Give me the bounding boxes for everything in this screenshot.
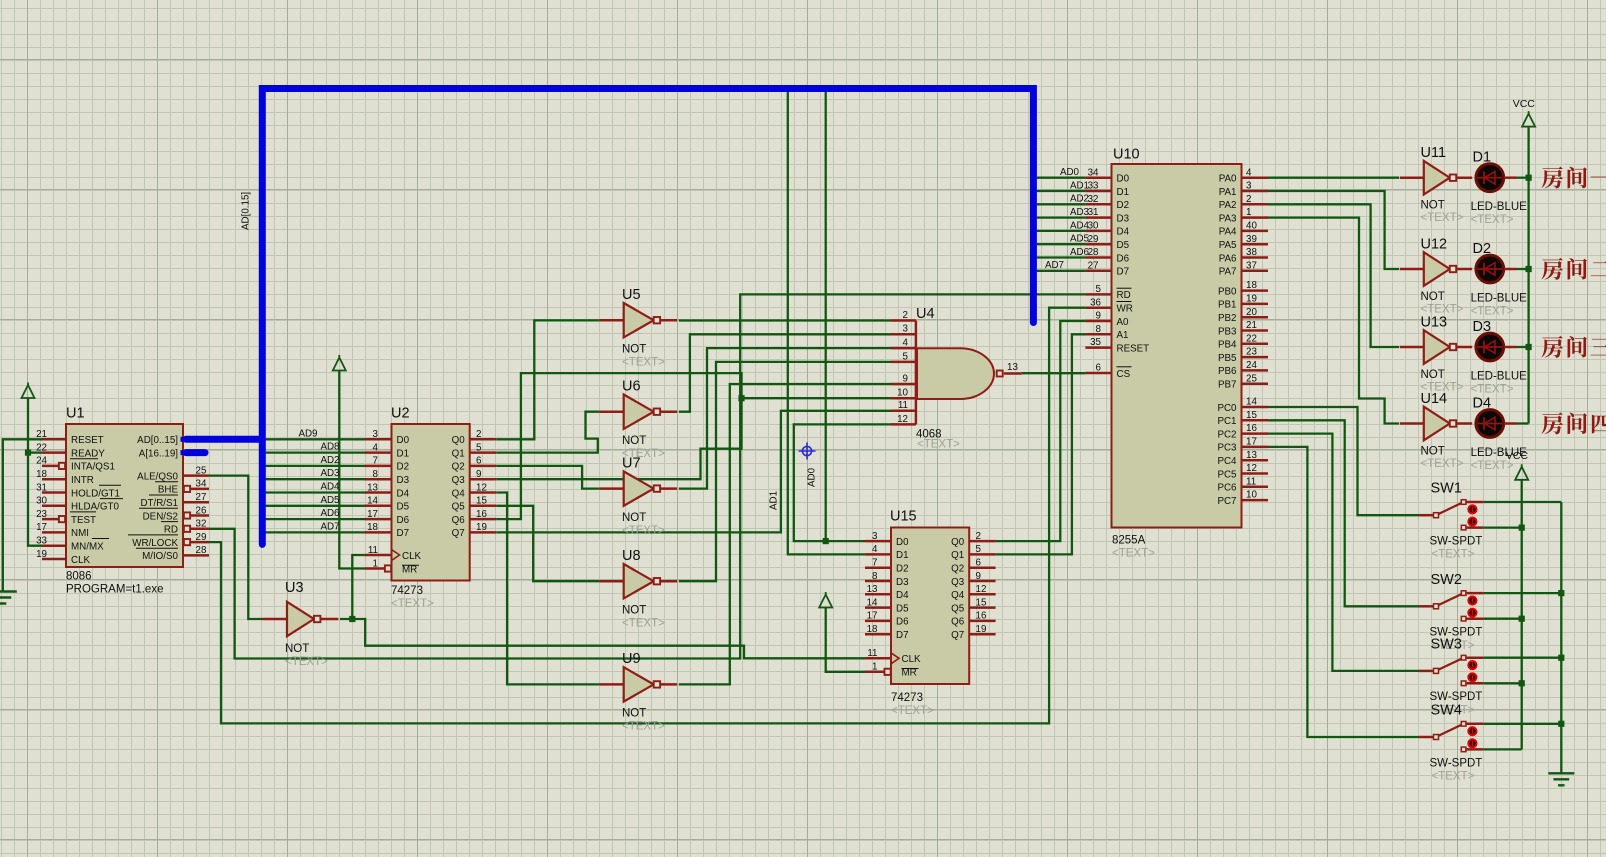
- net label AD5: [320, 495, 340, 506]
- wire ground rail for switches: [1560, 502, 1562, 773]
- svg-text:NMI: NMI: [71, 528, 89, 539]
- svg-text:Q7: Q7: [951, 630, 964, 641]
- svg-text:AD4: AD4: [320, 482, 340, 493]
- wire Q0 net U2.2 to U5 input: [496, 320, 600, 439]
- bus label AD[0.15]: [241, 192, 252, 230]
- svg-text:AD0: AD0: [1060, 167, 1080, 178]
- svg-text:U12: U12: [1421, 236, 1448, 252]
- svg-text:16: 16: [1246, 423, 1257, 434]
- wire PA3 U10.1 to U14 input: [1268, 218, 1399, 424]
- svg-text:28: 28: [196, 545, 207, 556]
- svg-text:15: 15: [1246, 410, 1257, 421]
- svg-text:6: 6: [1096, 363, 1102, 374]
- svg-text:D3: D3: [397, 475, 410, 486]
- svg-text:U10: U10: [1113, 147, 1140, 163]
- wire AD1 net bus to U15.D1: [788, 90, 865, 554]
- svg-text:PC7: PC7: [1217, 496, 1236, 507]
- svg-text:2: 2: [476, 429, 481, 440]
- svg-text:19: 19: [1246, 294, 1257, 305]
- wire LED D1 cathode to VCC rail: [1517, 177, 1529, 179]
- svg-text:30: 30: [1088, 221, 1099, 232]
- svg-text:D6: D6: [397, 515, 410, 526]
- net label AD3 at U10: [1070, 207, 1090, 218]
- svg-text:D0: D0: [397, 435, 410, 446]
- svg-text:WR: WR: [1117, 304, 1133, 315]
- svg-text:16: 16: [476, 509, 487, 520]
- wire U15.Q0 to U10.9 A0: [996, 321, 1086, 541]
- 8255A PPI U10: [1085, 147, 1268, 560]
- svg-text:U4: U4: [916, 306, 935, 322]
- wire AD8 bus tap to U2 D1: [262, 451, 364, 453]
- svg-text:<TEXT>: <TEXT>: [1432, 549, 1475, 561]
- wire AD4 bus tap to U10 D4: [1037, 230, 1086, 232]
- svg-text:3: 3: [872, 531, 878, 542]
- svg-text:34: 34: [1088, 167, 1099, 178]
- svg-text:U13: U13: [1421, 314, 1448, 330]
- wire Q2 net U2.6 to U7 input: [496, 466, 600, 489]
- svg-text:2: 2: [1246, 194, 1251, 205]
- wire U7 output to U4.4: [679, 348, 891, 489]
- svg-text:<TEXT>: <TEXT>: [1421, 212, 1464, 224]
- svg-text:D1: D1: [1117, 187, 1130, 198]
- 74273 latch U2: [365, 406, 497, 611]
- net label AD8: [320, 442, 340, 453]
- svg-text:AD9: AD9: [298, 428, 317, 439]
- wire RESET net U1.21 to ground: [3, 439, 42, 591]
- svg-text:LED-BLUE: LED-BLUE: [1471, 293, 1528, 305]
- wire Q4 net U2.12 to U9 input: [496, 493, 600, 685]
- wire U3 output to U15.11 CLK: [340, 619, 865, 658]
- svg-text:13: 13: [1007, 362, 1018, 373]
- svg-text:SW-SPDT: SW-SPDT: [1430, 691, 1483, 703]
- power flag VCC (left, feeds U1 READY / MN-MX): [22, 383, 35, 399]
- svg-text:RD: RD: [1117, 290, 1131, 301]
- svg-text:28: 28: [1088, 247, 1099, 258]
- svg-text:12: 12: [1246, 463, 1257, 474]
- svg-text:8255A: 8255A: [1112, 535, 1146, 547]
- svg-text:Q6: Q6: [452, 515, 466, 526]
- svg-text:16: 16: [976, 611, 987, 622]
- svg-text:U2: U2: [391, 406, 410, 422]
- net label AD2: [320, 455, 339, 466]
- svg-text:AD1: AD1: [1070, 180, 1089, 191]
- svg-text:PA0: PA0: [1219, 174, 1237, 185]
- svg-text:CLK: CLK: [402, 551, 422, 562]
- svg-text:DT/R/S1: DT/R/S1: [140, 498, 178, 509]
- svg-text:PB6: PB6: [1218, 366, 1237, 377]
- svg-text:RESET: RESET: [1117, 343, 1150, 354]
- svg-text:7: 7: [872, 558, 877, 569]
- net label AD6 at U10: [1070, 247, 1090, 258]
- NOT gate U12: [1400, 236, 1472, 315]
- svg-text:D6: D6: [1117, 253, 1130, 264]
- svg-text:A1: A1: [1117, 330, 1129, 341]
- svg-text:ALE/QS0: ALE/QS0: [137, 471, 178, 482]
- junction ground rail: [1558, 721, 1564, 727]
- junction on VCC rail at READY row: [25, 450, 31, 456]
- svg-text:D4: D4: [896, 590, 909, 601]
- wire SW1 upper throw to ground rail: [1483, 501, 1561, 503]
- svg-text:D3: D3: [1117, 213, 1130, 224]
- svg-text:3: 3: [903, 324, 909, 335]
- svg-text:AD7: AD7: [1045, 260, 1064, 271]
- wire U15.Q1 to U10.8 A1: [996, 334, 1086, 554]
- svg-text:AD5: AD5: [320, 495, 340, 506]
- svg-text:Q1: Q1: [452, 448, 465, 459]
- svg-text:DEN/S2: DEN/S2: [143, 511, 178, 522]
- svg-text:4: 4: [872, 544, 878, 555]
- net label 房间三: [1541, 336, 1606, 358]
- wire LED D4 cathode to VCC rail: [1517, 422, 1529, 424]
- svg-text:D4: D4: [1473, 396, 1492, 412]
- svg-text:32: 32: [1088, 194, 1099, 205]
- wire AD3 bus tap to U2 D3: [262, 478, 364, 480]
- svg-text:D2: D2: [1473, 241, 1492, 257]
- net label AD9: [298, 428, 317, 439]
- wire SW3 upper throw to ground rail: [1483, 657, 1561, 659]
- svg-text:U3: U3: [285, 580, 304, 596]
- svg-text:PB4: PB4: [1218, 340, 1237, 351]
- svg-text:SW4: SW4: [1431, 703, 1462, 719]
- wire SW3 lower throw to VCC rail: [1483, 682, 1521, 684]
- svg-text:Q2: Q2: [951, 564, 964, 575]
- svg-text:SW2: SW2: [1431, 572, 1462, 588]
- svg-text:U6: U6: [622, 379, 641, 395]
- svg-text:11: 11: [867, 648, 877, 659]
- svg-text:PB2: PB2: [1218, 313, 1237, 324]
- svg-text:<TEXT>: <TEXT>: [1471, 214, 1514, 226]
- svg-text:25: 25: [196, 465, 207, 476]
- svg-text:38: 38: [1246, 247, 1257, 258]
- svg-text:10: 10: [897, 388, 908, 399]
- svg-text:40: 40: [1246, 221, 1257, 232]
- svg-text:<TEXT>: <TEXT>: [622, 525, 665, 537]
- wire tap to U4.10: [742, 397, 892, 399]
- svg-text:PB3: PB3: [1218, 326, 1237, 337]
- svg-text:<TEXT>: <TEXT>: [622, 357, 665, 369]
- svg-text:3: 3: [373, 429, 379, 440]
- svg-text:D7: D7: [896, 630, 909, 641]
- power flag VCC (switch rail): [1506, 450, 1529, 480]
- wire U8 output to U4.5: [679, 362, 891, 581]
- svg-text:CLK: CLK: [71, 555, 91, 566]
- junction on AD0 net: [823, 538, 829, 544]
- svg-text:<TEXT>: <TEXT>: [1471, 384, 1514, 396]
- svg-text:WR/LOCK: WR/LOCK: [132, 538, 178, 549]
- wire U5 output to U4.2: [679, 319, 891, 321]
- svg-text:AD5: AD5: [1070, 234, 1090, 245]
- svg-text:Q6: Q6: [951, 617, 965, 628]
- svg-text:17: 17: [367, 509, 378, 520]
- svg-text:23: 23: [1246, 347, 1257, 358]
- wire U4 output to U10.6 CS: [1022, 372, 1086, 374]
- svg-text:D0: D0: [1117, 174, 1130, 185]
- svg-text:17: 17: [1246, 437, 1257, 448]
- svg-text:AD6: AD6: [1070, 247, 1090, 258]
- svg-text:10: 10: [1246, 490, 1257, 501]
- svg-text:AD[0.15]: AD[0.15]: [241, 192, 252, 230]
- svg-text:MN/MX: MN/MX: [71, 542, 104, 553]
- svg-text:8: 8: [872, 571, 878, 582]
- wire LED D3 cathode to VCC rail: [1517, 346, 1529, 348]
- svg-text:1: 1: [373, 558, 378, 569]
- net label AD0 (rotated): [807, 467, 818, 487]
- svg-text:U14: U14: [1421, 391, 1448, 407]
- svg-text:SW1: SW1: [1431, 481, 1462, 497]
- svg-text:LED-BLUE: LED-BLUE: [1471, 371, 1528, 383]
- svg-text:PA3: PA3: [1219, 213, 1237, 224]
- svg-text:4: 4: [1246, 167, 1252, 178]
- svg-text:AD[0..15]: AD[0..15]: [137, 435, 178, 446]
- svg-text:5: 5: [1096, 284, 1102, 295]
- svg-text:D5: D5: [896, 603, 909, 614]
- svg-text:AD3: AD3: [320, 468, 340, 479]
- svg-text:<TEXT>: <TEXT>: [891, 705, 934, 717]
- svg-text:PC3: PC3: [1217, 443, 1237, 454]
- wire U3 output branch to U2.11 CLK: [352, 555, 364, 619]
- svg-text:SW-SPDT: SW-SPDT: [1430, 757, 1483, 769]
- svg-text:5: 5: [976, 544, 982, 555]
- svg-text:25: 25: [1246, 373, 1257, 384]
- svg-text:D2: D2: [1117, 200, 1130, 211]
- svg-text:14: 14: [367, 496, 378, 507]
- svg-text:<TEXT>: <TEXT>: [622, 721, 665, 733]
- svg-text:Q7: Q7: [452, 528, 465, 539]
- net label 房间二: [1541, 258, 1606, 280]
- svg-text:AD7: AD7: [320, 521, 339, 532]
- svg-text:TEST: TEST: [71, 515, 96, 526]
- junction VCC rail: [1519, 680, 1525, 686]
- ground (bottom-left, U1 RESET net): [0, 592, 17, 604]
- svg-text:D2: D2: [397, 462, 410, 473]
- wire PC1 U10.15 to SW2: [1268, 420, 1419, 606]
- svg-text:11: 11: [898, 400, 908, 411]
- NOT gate U9: [600, 651, 677, 733]
- svg-text:5: 5: [903, 351, 909, 362]
- junction ground rail: [1558, 590, 1564, 596]
- svg-text:AD6: AD6: [320, 508, 340, 519]
- svg-text:27: 27: [1088, 260, 1099, 271]
- svg-text:6: 6: [476, 456, 482, 467]
- svg-text:5: 5: [476, 442, 482, 453]
- net label AD7: [320, 521, 339, 532]
- svg-text:22: 22: [36, 442, 47, 453]
- svg-text:Q2: Q2: [452, 462, 465, 473]
- svg-text:NOT: NOT: [622, 435, 646, 447]
- svg-text:D2: D2: [896, 564, 909, 575]
- net label AD5 at U10: [1070, 234, 1090, 245]
- wire AD6 bus tap to U2 D6: [262, 518, 364, 520]
- svg-text:29: 29: [196, 532, 207, 543]
- svg-text:D1: D1: [397, 448, 410, 459]
- svg-text:18: 18: [867, 624, 878, 635]
- svg-text:39: 39: [1246, 234, 1257, 245]
- svg-text:NOT: NOT: [622, 512, 646, 524]
- svg-text:31: 31: [1088, 207, 1099, 218]
- svg-text:PC5: PC5: [1217, 469, 1237, 480]
- svg-text:9: 9: [976, 571, 981, 582]
- wire VCC rail for LEDs: [1527, 127, 1529, 424]
- wire Q7 net U2.19 to U4.11: [496, 411, 891, 533]
- switch SW-SPDT SW3: [1419, 636, 1483, 716]
- svg-text:13: 13: [867, 584, 878, 595]
- svg-text:AD2: AD2: [320, 455, 339, 466]
- svg-text:D6: D6: [896, 617, 909, 628]
- svg-text:8: 8: [373, 469, 379, 480]
- wire SW4 lower throw to VCC rail: [1483, 748, 1521, 750]
- bus AD[0..15]: [186, 89, 1033, 545]
- svg-text:Q5: Q5: [951, 603, 965, 614]
- wire PC0 U10.14 to SW1: [1268, 407, 1419, 515]
- net label AD2 at U10: [1070, 194, 1089, 205]
- svg-text:9: 9: [476, 469, 481, 480]
- svg-text:1: 1: [872, 662, 877, 673]
- svg-text:8: 8: [1096, 324, 1102, 335]
- svg-text:U15: U15: [890, 509, 917, 525]
- svg-text:PC4: PC4: [1217, 456, 1237, 467]
- 8-input NAND U4 4068: [891, 306, 1022, 451]
- svg-text:D4: D4: [397, 488, 410, 499]
- wire Q5 net U2.15 to U8 input: [496, 506, 600, 581]
- svg-text:AD8: AD8: [320, 442, 340, 453]
- svg-text:<TEXT>: <TEXT>: [1432, 771, 1475, 783]
- wire SW1 lower throw to VCC rail: [1483, 526, 1521, 528]
- svg-text:17: 17: [36, 522, 47, 533]
- svg-text:2: 2: [976, 531, 981, 542]
- svg-text:33: 33: [36, 536, 47, 547]
- NOT gate U8: [600, 548, 677, 630]
- svg-text:24: 24: [36, 456, 47, 467]
- net label AD4: [320, 482, 340, 493]
- svg-text:<TEXT>: <TEXT>: [1471, 306, 1514, 318]
- svg-text:NOT: NOT: [622, 344, 646, 356]
- wire AD3 bus tap to U10 D3: [1037, 216, 1086, 218]
- junction LED rail: [1526, 175, 1532, 181]
- svg-text:PC0: PC0: [1217, 403, 1237, 414]
- svg-text:8086: 8086: [66, 571, 92, 583]
- switch SW-SPDT SW4: [1419, 703, 1483, 783]
- svg-text:18: 18: [1246, 280, 1257, 291]
- svg-text:PC6: PC6: [1217, 483, 1237, 494]
- svg-text:1: 1: [1246, 207, 1251, 218]
- svg-text:4: 4: [903, 338, 909, 349]
- svg-text:18: 18: [367, 522, 378, 533]
- svg-text:<TEXT>: <TEXT>: [1421, 458, 1464, 470]
- wire VCC rail branch to U1.22 READY: [28, 451, 42, 453]
- net label AD3: [320, 468, 340, 479]
- net label AD0 at U10: [1060, 167, 1080, 178]
- svg-text:Q4: Q4: [951, 590, 965, 601]
- svg-text:Q4: Q4: [452, 488, 466, 499]
- svg-text:HLDA/GT0: HLDA/GT0: [71, 502, 119, 513]
- wire AD0 bus tap to U10 D0: [1037, 177, 1086, 179]
- svg-text:12: 12: [976, 584, 987, 595]
- svg-text:15: 15: [476, 496, 487, 507]
- svg-text:NOT: NOT: [1421, 291, 1445, 303]
- svg-text:INTA/QS1: INTA/QS1: [71, 462, 115, 473]
- svg-text:34: 34: [196, 479, 207, 490]
- wire AD7 bus tap to U10 D7: [1037, 270, 1086, 272]
- svg-text:PB0: PB0: [1218, 286, 1237, 297]
- origin marker: [799, 443, 816, 460]
- NOT gate U7: [600, 455, 677, 537]
- svg-text:U7: U7: [622, 455, 641, 471]
- svg-text:24: 24: [1246, 360, 1257, 371]
- svg-text:35: 35: [1090, 337, 1101, 348]
- svg-text:RD: RD: [164, 525, 178, 536]
- net label 房间一: [1541, 167, 1606, 189]
- NOT gate U14: [1400, 391, 1472, 470]
- wire PA2 U10.2 to U13 input: [1268, 204, 1399, 347]
- svg-text:U9: U9: [622, 651, 641, 667]
- wire PC3 U10.17 to SW4: [1268, 447, 1419, 737]
- wire VCC rail to U1.33 MN/MX: [28, 398, 42, 546]
- svg-text:37: 37: [1246, 260, 1257, 271]
- svg-text:15: 15: [976, 597, 987, 608]
- wire LED D2 cathode to VCC rail: [1517, 268, 1529, 270]
- LED-BLUE D1: [1471, 150, 1528, 227]
- svg-text:NOT: NOT: [285, 643, 309, 655]
- svg-text:A[16..19]: A[16..19]: [139, 448, 178, 459]
- wire ALE net U1.25 to U3 input: [209, 476, 263, 619]
- svg-text:18: 18: [36, 469, 47, 480]
- svg-text:Q3: Q3: [452, 475, 466, 486]
- junction ground rail: [1558, 655, 1564, 661]
- svg-text:17: 17: [867, 611, 878, 622]
- svg-text:INTR: INTR: [71, 475, 94, 486]
- svg-text:NOT: NOT: [1421, 369, 1445, 381]
- wire U6 output to U4.3: [679, 334, 891, 411]
- svg-text:HOLD/GT1: HOLD/GT1: [71, 488, 120, 499]
- svg-text:74273: 74273: [391, 585, 423, 597]
- svg-text:PC2: PC2: [1217, 429, 1236, 440]
- wire AD5 bus tap to U2 D5: [262, 505, 364, 507]
- svg-text:<TEXT>: <TEXT>: [391, 598, 434, 610]
- junction on decode net at U4.10 row: [738, 395, 744, 401]
- wire VCC to U2.1 MR: [339, 371, 364, 569]
- junction VCC rail: [1519, 616, 1525, 622]
- svg-text:PB1: PB1: [1218, 300, 1237, 311]
- svg-text:CLK: CLK: [902, 654, 922, 665]
- switch SW-SPDT SW1: [1419, 481, 1483, 561]
- svg-text:PA7: PA7: [1219, 267, 1237, 278]
- wire AD5 bus tap to U10 D5: [1037, 243, 1086, 245]
- svg-text:26: 26: [196, 505, 207, 516]
- svg-text:BHE: BHE: [158, 485, 179, 496]
- svg-text:<TEXT>: <TEXT>: [622, 618, 665, 630]
- svg-text:9: 9: [903, 373, 908, 384]
- svg-text:PA1: PA1: [1219, 187, 1237, 198]
- svg-text:RESET: RESET: [71, 435, 104, 446]
- wire VCC rail for switches: [1521, 480, 1523, 750]
- wire SW2 upper throw to ground rail: [1483, 592, 1561, 594]
- svg-text:12: 12: [897, 414, 908, 425]
- svg-text:PA6: PA6: [1219, 253, 1237, 264]
- svg-text:NOT: NOT: [1421, 445, 1445, 457]
- svg-text:LED-BLUE: LED-BLUE: [1471, 447, 1528, 459]
- svg-text:9: 9: [1096, 311, 1101, 322]
- svg-text:A0: A0: [1117, 317, 1130, 328]
- svg-text:SW3: SW3: [1431, 636, 1462, 652]
- wire PA0 U10.4 to U11 input: [1268, 177, 1399, 179]
- svg-text:U8: U8: [622, 548, 641, 564]
- wire U9 output to U4.9: [679, 384, 891, 684]
- wire AD0 net bus to U15.D0: [826, 90, 865, 541]
- wire Q3/Q6 decode net (staircase): [496, 373, 741, 519]
- svg-text:D4: D4: [1117, 227, 1130, 238]
- svg-text:AD4: AD4: [1070, 220, 1090, 231]
- svg-text:NOT: NOT: [622, 708, 646, 720]
